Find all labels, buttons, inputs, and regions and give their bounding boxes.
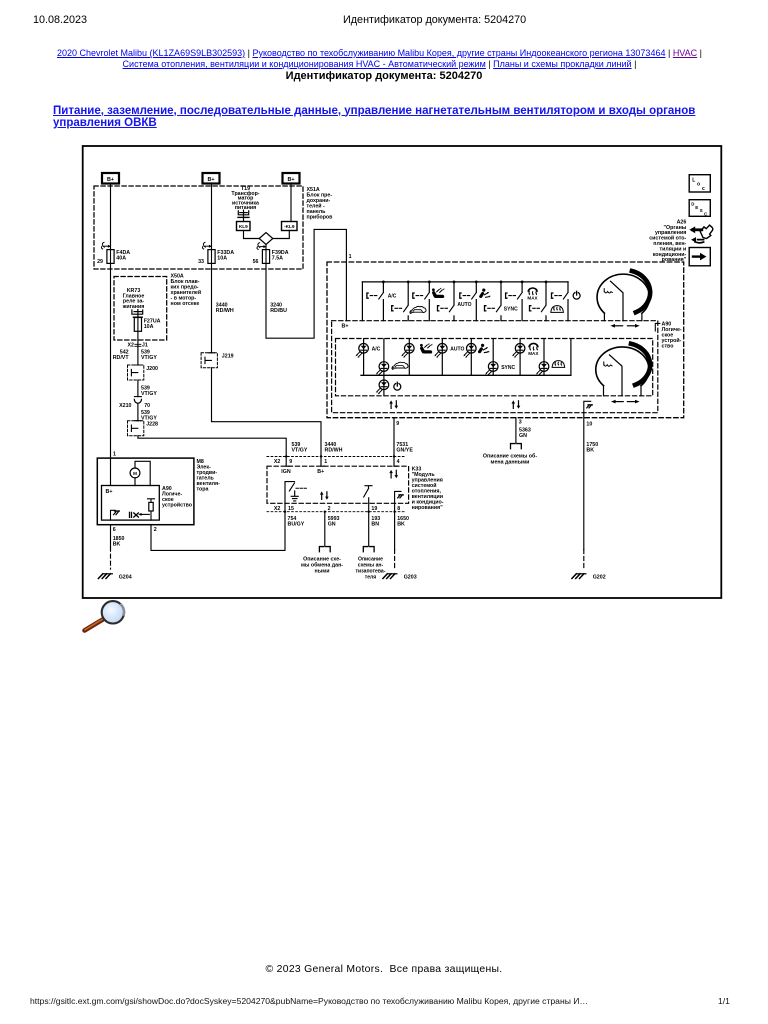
breaker hook at F33DA — [202, 242, 211, 249]
svg-text:SYNC: SYNC — [501, 365, 515, 371]
svg-text:9: 9 — [289, 459, 292, 465]
off-page jump symbol — [689, 225, 712, 243]
serial data arrows A26 pin 3 — [512, 400, 521, 408]
relay contact -KL9 — [282, 222, 298, 231]
off-page fork 5363 — [511, 444, 522, 449]
svg-text:9: 9 — [396, 421, 399, 427]
svg-text:3240RD/BU: 3240RD/BU — [270, 302, 287, 314]
serial data arrows K33 pin 4 — [389, 470, 398, 478]
svg-text:539VT/GY: 539VT/GY — [141, 410, 157, 422]
fuse F4DA 40A — [107, 250, 130, 264]
splice J228 — [128, 421, 159, 436]
svg-text:J1: J1 — [142, 343, 148, 349]
legend box LOC — [689, 175, 710, 192]
lamp row right edge wire — [570, 339, 572, 376]
svg-text:1: 1 — [324, 459, 327, 465]
fuse F27UA 10A — [134, 318, 160, 332]
svg-text:2: 2 — [328, 506, 331, 512]
wire diamond to fuse F39DA — [265, 244, 267, 249]
svg-text:539VT/GY: 539VT/GY — [141, 385, 157, 397]
svg-text:KL9: KL9 — [239, 224, 248, 229]
fuse F39DA 7.5A — [262, 250, 288, 264]
wire KL9 to junction diamond — [244, 231, 260, 239]
encoder RE1 rotate arrows — [610, 324, 639, 328]
rotary encoder RE2 — [596, 344, 650, 396]
connector X2 J1 tick — [135, 344, 141, 346]
encoder RE2 rotate arrows — [611, 400, 640, 404]
splice J200 — [128, 365, 159, 380]
SYNC switch S6 — [485, 282, 519, 321]
svg-text:A/C: A/C — [372, 347, 381, 353]
svg-text:6: 6 — [113, 527, 116, 533]
svg-text:3: 3 — [519, 419, 522, 425]
wire -KL9 to junction diamond — [273, 231, 290, 239]
svg-text:19: 19 — [371, 506, 377, 512]
document id bold — [0, 70, 768, 82]
logic device A90 box — [102, 486, 160, 521]
MAX indicator lamp — [512, 339, 539, 376]
serial data arrows K33 pin 2 — [320, 491, 329, 499]
wire B+3 to relay contact -KL9 — [290, 184, 292, 222]
ground G203 — [383, 574, 417, 581]
svg-text:E: E — [695, 205, 698, 210]
rotary encoder RE1 — [597, 271, 650, 321]
breaker hook at F39DA — [257, 243, 266, 250]
svg-text:X210: X210 — [119, 403, 131, 409]
wire F4DA to blower motor M8 pin 1 — [110, 263, 112, 458]
relay KR73 coil symbol — [132, 310, 143, 318]
svg-text:70: 70 — [144, 403, 150, 409]
wire B+1 to fuse F4DA — [110, 184, 112, 250]
svg-text:MAX: MAX — [528, 351, 539, 356]
svg-text:B+: B+ — [317, 469, 324, 475]
footer url — [30, 996, 588, 1006]
footer copyright — [0, 964, 768, 975]
svg-text:Описание схемы об-мена данными: Описание схемы об-мена данными — [483, 452, 537, 465]
svg-text:Описание схе-мы обмена дан-ным: Описание схе-мы обмена дан-ными — [301, 557, 343, 575]
wire 539 VT/GY to K33 pin 9 — [138, 436, 286, 466]
air distribution switch S5 — [460, 282, 491, 321]
svg-text:X51AБлок пре-дохрани-телей -па: X51AБлок пре-дохрани-телей -панельприбор… — [307, 187, 334, 221]
svg-text:L: L — [692, 178, 695, 184]
svg-text:5993GN: 5993GN — [328, 516, 340, 528]
svg-text:B+: B+ — [107, 177, 114, 183]
svg-text:-KL9: -KL9 — [284, 224, 295, 229]
wire 5993 GN serial data lower — [324, 512, 326, 546]
battery terminal B+ 2 — [203, 173, 220, 184]
legend box arrow — [689, 248, 710, 266]
svg-text:B+: B+ — [106, 489, 113, 495]
svg-text:K33"Модульуправлениясистемойот: K33"Модульуправлениясистемойотопления,ве… — [412, 467, 444, 512]
svg-text:G202: G202 — [593, 575, 606, 581]
svg-text:8: 8 — [397, 506, 400, 512]
wire 539 VT/GY segment — [137, 403, 139, 420]
svg-text:7.5A: 7.5A — [272, 256, 283, 262]
svg-text:A90Логиче-скоеустрой-ство: A90Логиче-скоеустрой-ство — [662, 321, 682, 349]
power indicator lamp — [376, 375, 401, 395]
svg-text:3440RD/WH: 3440RD/WH — [216, 302, 234, 314]
ground G202 — [572, 574, 606, 581]
svg-text:T19Трансфор-матористочникапита: T19Трансфор-матористочникапитания — [231, 186, 259, 211]
fuse F33DA 10A — [208, 250, 234, 264]
junction diamond node — [259, 233, 273, 245]
HVAC module K33 dashed box — [267, 466, 409, 503]
svg-text:33: 33 — [198, 259, 204, 265]
svg-text:AUTO: AUTO — [457, 302, 471, 308]
legend box DESC — [689, 200, 710, 217]
svg-text:193BN: 193BN — [371, 516, 380, 528]
svg-text:15: 15 — [288, 506, 294, 512]
diagram outer frame — [83, 146, 722, 598]
svg-text:J219: J219 — [222, 353, 234, 359]
battery terminal B+ 1 — [102, 173, 119, 184]
switch row top rail — [362, 281, 568, 283]
wire 5363 GN serial data — [515, 418, 517, 443]
svg-text:KR73Главноереле за-жигания: KR73Главноереле за-жигания — [122, 288, 145, 310]
wire 1750 BK to G202 — [583, 413, 585, 569]
A90 internal ground branch — [111, 510, 120, 520]
header document id — [343, 14, 526, 26]
breadcrumb line 1 — [0, 48, 759, 58]
wire B+2 to fuse F33DA — [211, 184, 213, 250]
K33 internal ignition switch — [285, 482, 306, 512]
junction dots at connector X2 upper — [285, 455, 395, 457]
breadcrumb line 2 — [0, 59, 759, 69]
svg-text:J200: J200 — [146, 366, 158, 372]
HVAC controls A26 dashed box — [327, 262, 684, 418]
A90 internal transistor column — [138, 499, 154, 520]
wire 3440 RD/WH to K33 pin 1 — [212, 368, 322, 466]
svg-text:M: M — [133, 471, 137, 476]
A26 internal ground branch for pin 10 — [584, 401, 593, 412]
off-page fork 5993 — [319, 547, 330, 552]
fuse block X51A dashed box — [94, 186, 303, 269]
inline connector X210 — [134, 397, 141, 404]
svg-text:B+: B+ — [287, 177, 294, 183]
lamp row bottom rail — [361, 374, 571, 376]
K33 internal ground branch pin 8 — [395, 491, 404, 511]
heated seat indicator lamp — [401, 339, 432, 376]
A/C indicator lamp — [355, 339, 380, 376]
blower motor M8 box — [97, 458, 194, 525]
K33 connector X2 upper dotted line — [267, 456, 405, 458]
wire 1650 BK to G203 — [394, 512, 396, 569]
magnifier icon — [85, 601, 125, 630]
footer page number — [718, 996, 730, 1006]
svg-text:3440RD/WH: 3440RD/WH — [325, 442, 343, 454]
svg-text:10: 10 — [586, 421, 592, 427]
MAX defrost switch S7 — [506, 282, 539, 321]
breaker hook at F4DA — [101, 242, 110, 249]
power switch S9 — [552, 282, 581, 321]
AUTO switch S4 — [438, 282, 472, 321]
rear defrost switch S8 — [530, 282, 564, 321]
svg-text:o: o — [697, 182, 700, 188]
wire M8 pin1 into A90 — [110, 458, 112, 485]
svg-text:1850BK: 1850BK — [113, 536, 125, 548]
svg-text:5363GN: 5363GN — [519, 428, 531, 440]
header date — [33, 14, 87, 26]
wire 542 RD/VT from F27UA — [137, 331, 139, 365]
svg-text:1: 1 — [349, 254, 352, 260]
svg-text:10A: 10A — [144, 324, 154, 330]
svg-text:539VT/GY: 539VT/GY — [292, 442, 308, 454]
A90 internal PWM mark — [130, 512, 139, 517]
svg-text:IGN: IGN — [281, 469, 291, 475]
svg-text:56: 56 — [253, 259, 259, 265]
svg-text:A90Логиче-скоеустройство: A90Логиче-скоеустройство — [162, 486, 193, 509]
heated seat switch S3 — [413, 282, 445, 321]
wire 1850 BK to G204 — [110, 525, 112, 569]
svg-text:B+: B+ — [342, 323, 349, 329]
svg-text:539VT/GY: 539VT/GY — [141, 349, 157, 361]
svg-text:2: 2 — [154, 527, 157, 533]
A26 inner B+ dashed box — [332, 321, 658, 413]
svg-text:B+: B+ — [207, 177, 214, 183]
svg-text:G204: G204 — [119, 575, 132, 581]
AUTO indicator lamp — [434, 339, 464, 376]
fuse block X50A dashed box — [114, 277, 167, 341]
A86 label leader — [655, 323, 660, 331]
svg-text:40A: 40A — [116, 256, 126, 262]
K33 internal antifog switch — [364, 486, 372, 512]
wire 193 BN antifog — [368, 512, 370, 546]
wire 3240 RD/BU from F39DA to A26 B+ pin 1 — [266, 229, 346, 338]
junction dots at connector X2 lower — [284, 511, 396, 513]
svg-text:AUTO: AUTO — [450, 347, 464, 353]
svg-text:A/C: A/C — [388, 294, 397, 300]
splice J219 — [201, 353, 234, 368]
svg-text:G203: G203 — [404, 575, 417, 581]
svg-text:Описаниесхемы ан-тизапотева-те: Описаниесхемы ан-тизапотева-теля — [356, 557, 386, 581]
svg-text:A26"Органыуправлениясистемой о: A26"Органыуправлениясистемой ото-пления,… — [649, 219, 687, 263]
K33 connector X2 lower dotted line — [267, 511, 406, 513]
serial data arrows A26 pin 9 — [389, 400, 398, 408]
svg-text:c: c — [702, 186, 705, 192]
svg-text:X2: X2 — [128, 343, 135, 349]
A/C switch S1 — [367, 282, 397, 321]
logic device A86 dashed box — [336, 339, 653, 396]
svg-text:J228: J228 — [146, 422, 158, 428]
motor M circle — [130, 468, 140, 478]
svg-text:MAX: MAX — [527, 296, 538, 301]
switch row left wire — [361, 282, 363, 321]
page title — [53, 105, 733, 130]
svg-text:SYNC: SYNC — [504, 306, 518, 312]
recirculation switch S2 — [392, 282, 426, 321]
svg-text:M8Элек-тродви-гательвентиля-то: M8Элек-тродви-гательвентиля-тора — [197, 459, 221, 493]
svg-text:754BU/GY: 754BU/GY — [288, 516, 305, 528]
svg-text:S: S — [700, 208, 703, 213]
svg-text:542RD/VT: 542RD/VT — [113, 349, 130, 361]
svg-text:4: 4 — [397, 459, 400, 465]
svg-text:D: D — [691, 202, 694, 207]
battery terminal B+ 3 — [283, 173, 300, 184]
svg-text:1: 1 — [113, 451, 116, 457]
motor loop wire — [135, 461, 150, 485]
svg-text:X2: X2 — [274, 459, 281, 465]
wire 754 BU/GY from A90 pin 2 to K33 pin 15 — [151, 512, 285, 551]
transformer T19 symbol — [238, 210, 249, 221]
svg-text:1750BK: 1750BK — [586, 442, 598, 454]
off-page fork 193 — [363, 547, 374, 552]
svg-text:X50AБлок плав-ких предо-хранит: X50AБлок плав-ких предо-хранителей- в мо… — [171, 274, 202, 308]
ground G204 — [98, 574, 131, 581]
svg-text:10A: 10A — [217, 256, 227, 262]
svg-text:1650BK: 1650BK — [397, 516, 409, 528]
svg-text:7531GN/YE: 7531GN/YE — [396, 442, 413, 454]
recirculation indicator lamp — [376, 339, 408, 376]
svg-text:29: 29 — [97, 259, 103, 265]
wire 7531 GN/YE A26 to K33 pin 4 — [393, 418, 395, 466]
wire 539 VT/GY segment — [137, 380, 139, 397]
rear defrost indicator lamp — [536, 339, 565, 376]
relay contact KL9 — [237, 222, 251, 231]
rail junction dots — [382, 281, 547, 284]
air distribution indicator lamp — [463, 339, 490, 376]
wire 3440 RD/WH from F33DA — [211, 263, 213, 352]
pin feet at K33 box top — [286, 465, 397, 467]
svg-text:X2: X2 — [274, 506, 281, 512]
SYNC indicator lamp — [485, 339, 515, 376]
